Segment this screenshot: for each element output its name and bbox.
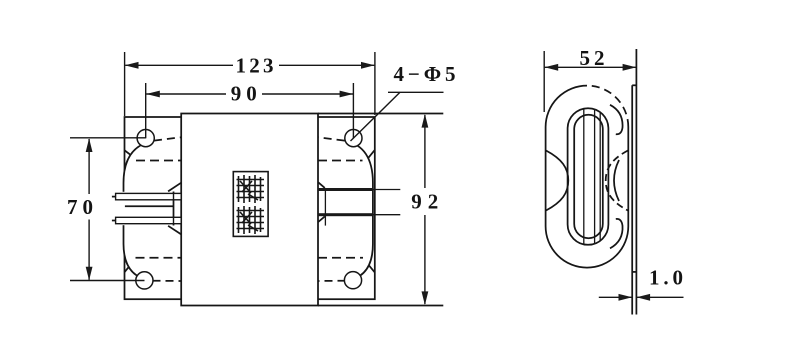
svg-text:1.0: 1.0 — [649, 265, 683, 289]
svg-text:4−Φ5: 4−Φ5 — [394, 62, 456, 86]
svg-text:90: 90 — [231, 82, 257, 106]
svg-text:92: 92 — [411, 189, 438, 213]
svg-text:70: 70 — [67, 195, 93, 219]
svg-text:52: 52 — [580, 46, 605, 70]
svg-text:123: 123 — [236, 54, 274, 78]
